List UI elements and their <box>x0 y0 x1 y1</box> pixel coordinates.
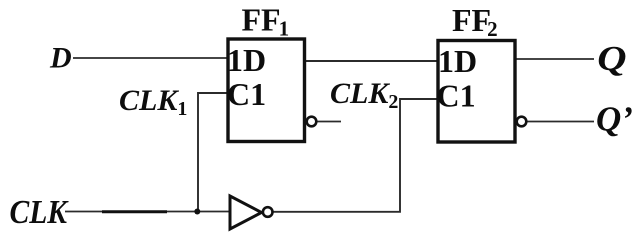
inverter G1 bubble <box>263 207 273 217</box>
svg-text:CLK2: CLK2 <box>330 77 398 113</box>
wire CLK1 horizontal into FF1 C1 <box>198 93 228 212</box>
junction dot CLK node <box>194 209 200 215</box>
svg-text:Q: Q <box>597 39 626 78</box>
wire FF2 Q-bar output <box>527 121 594 123</box>
wire inverter output to CLK2 vertical and into FF2 C1 <box>274 99 438 212</box>
node label Q <box>597 39 626 78</box>
flip-flop FF1 box <box>228 39 305 142</box>
wire CLK main horizontal <box>65 211 230 213</box>
svg-text:C1: C1 <box>437 78 476 114</box>
svg-text:C1: C1 <box>227 76 266 112</box>
flip-flop FF2 box <box>438 41 515 143</box>
FF2 inverted-output bubble <box>517 117 527 127</box>
svg-text:CLK1: CLK1 <box>119 84 187 120</box>
svg-text:CLK: CLK <box>10 193 70 230</box>
wire FF2 Q output <box>516 58 594 60</box>
wire FF1 Q output to FF2 1D <box>305 60 438 62</box>
svg-text:1D: 1D <box>227 42 266 78</box>
svg-text:1D: 1D <box>438 43 477 79</box>
svg-text:FF2: FF2 <box>452 2 498 41</box>
wire D to FF1 1D <box>73 57 228 59</box>
wire FF1 Q-bar stub <box>317 121 341 123</box>
svg-text:Q’: Q’ <box>596 100 633 139</box>
inverter G1 triangle <box>230 196 262 229</box>
FF1 inverted-output bubble <box>307 117 317 127</box>
wire CLK thick segment <box>102 210 167 213</box>
svg-text:D: D <box>49 42 72 75</box>
node label CLK <box>10 193 70 230</box>
